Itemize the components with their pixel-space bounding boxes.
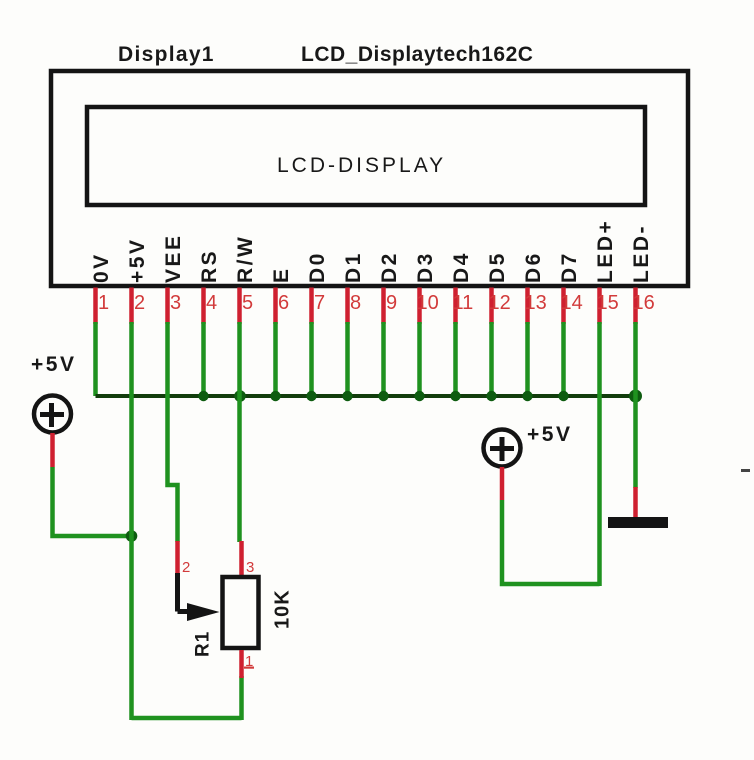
svg-text:13: 13 <box>525 292 547 314</box>
pin 11 (D4) <box>450 251 473 324</box>
junction pin 12 <box>486 391 496 401</box>
wire pin 3 VEE down with jog to R1 wiper <box>168 322 178 542</box>
wire pin 4 down to bus <box>201 322 206 396</box>
svg-text:0V: 0V <box>90 252 113 283</box>
wire pin 9 down to bus <box>381 322 386 396</box>
svg-text:VEE: VEE <box>162 233 185 283</box>
wire +5V left down and right to pin2 net <box>53 467 132 536</box>
junction +5V left with pin2 net <box>126 530 138 542</box>
wire pin 14 down to bus <box>561 322 566 396</box>
wire pin 12 down to bus <box>489 322 494 396</box>
potentiometer R1 body <box>223 577 259 648</box>
pin 7 (D0) <box>306 251 329 324</box>
wire up to R1 pin1 <box>239 676 244 720</box>
pin 16 (LED-) <box>630 224 655 324</box>
pin 5 (R/W) <box>234 235 257 324</box>
wire pin 16 down to ground <box>633 322 638 488</box>
pin 6 (E) <box>270 266 293 324</box>
ground pin stub (red) <box>633 487 638 518</box>
junction pin 5 <box>234 390 246 402</box>
wire pin 13 down to bus <box>525 322 530 396</box>
wire pin 2 down through bus to bottom <box>129 322 134 720</box>
svg-text:2: 2 <box>182 559 190 576</box>
wire pin 5 R/W down to R1 pin3 <box>237 322 242 542</box>
pin 10 (D3) <box>414 251 439 324</box>
pin stub of +5V left (red) <box>50 433 55 467</box>
pin 13 (D6) <box>522 251 547 324</box>
svg-text:12: 12 <box>489 292 511 314</box>
svg-text:14: 14 <box>561 292 583 314</box>
junction pin 8 <box>342 391 352 401</box>
svg-text:10K: 10K <box>272 589 294 629</box>
svg-text:+5V: +5V <box>31 353 76 376</box>
wire 0V bus horizontal <box>96 394 636 398</box>
pin 2 (+5V) <box>126 238 149 324</box>
svg-text:9: 9 <box>386 292 397 314</box>
component Display1 outer body <box>51 71 688 286</box>
ground symbol <box>608 517 668 528</box>
svg-text:15: 15 <box>597 292 619 314</box>
svg-text:D4: D4 <box>450 251 473 283</box>
stray scan mark right edge <box>741 469 750 472</box>
wire pin 10 down to bus <box>417 322 422 396</box>
svg-text:11: 11 <box>453 292 474 314</box>
pin 3 (VEE) <box>162 233 185 324</box>
svg-text:+5V: +5V <box>126 238 149 283</box>
junction pin 9 <box>378 391 388 401</box>
R1 pin 1 stub bottom (red) <box>239 650 244 678</box>
svg-text:RS: RS <box>198 249 221 283</box>
svg-text:D2: D2 <box>378 251 401 283</box>
svg-text:D3: D3 <box>414 251 437 283</box>
wire pin 1 down to bus <box>93 322 98 396</box>
wire pin 8 down to bus <box>345 322 350 396</box>
svg-text:D6: D6 <box>522 251 545 283</box>
wire bottom horizontal to R1 pin1 <box>132 716 242 721</box>
wire pin 11 down to bus <box>453 322 458 396</box>
pin 14 (D7) <box>558 251 583 324</box>
svg-text:5: 5 <box>242 292 253 314</box>
wire pin 15 down to +5V right net <box>597 322 602 586</box>
svg-text:D5: D5 <box>486 251 509 283</box>
R1 wiper pin stub (red) <box>175 541 180 573</box>
wire +5V right down and to pin15 <box>502 500 600 584</box>
svg-text:7: 7 <box>314 292 325 314</box>
pin 4 (RS) <box>198 249 221 324</box>
junction pin 4 <box>198 391 208 401</box>
svg-text:16: 16 <box>633 292 655 314</box>
wire pin 7 down to bus <box>309 322 314 396</box>
wire pin 6 down to bus <box>273 322 278 396</box>
pin stub of +5V right (red) <box>500 467 505 500</box>
svg-text:1: 1 <box>98 292 109 314</box>
pin 15 (LED+) <box>594 219 619 324</box>
junction pin 11 <box>450 391 460 401</box>
svg-text:LCD_Displaytech162C: LCD_Displaytech162C <box>301 43 533 66</box>
svg-text:+5V: +5V <box>527 423 572 446</box>
LCD display window rectangle <box>87 107 645 205</box>
svg-text:D1: D1 <box>342 251 365 283</box>
pin 8 (D1) <box>342 251 365 324</box>
svg-text:R/W: R/W <box>234 235 257 283</box>
svg-text:10: 10 <box>417 292 439 314</box>
svg-text:LCD-DISPLAY: LCD-DISPLAY <box>277 154 446 177</box>
junction pin 13 <box>522 391 532 401</box>
svg-text:D7: D7 <box>558 251 581 283</box>
pin 12 (D5) <box>486 251 511 324</box>
svg-text:E: E <box>270 266 293 283</box>
power +5V symbol left <box>34 396 71 433</box>
junction pin 16 <box>629 390 642 403</box>
R1 pin 3 stub (red) <box>239 541 244 575</box>
junction pin 7 <box>306 391 316 401</box>
svg-text:D0: D0 <box>306 251 329 283</box>
pin 9 (D2) <box>378 251 401 324</box>
svg-text:LED+: LED+ <box>594 219 617 283</box>
junction pin 14 <box>558 391 568 401</box>
junction pin 10 <box>414 391 424 401</box>
svg-text:Display1: Display1 <box>118 43 215 66</box>
junction pin 6 <box>270 391 280 401</box>
svg-text:R1: R1 <box>193 631 214 657</box>
pin 1 (0V) <box>90 252 113 324</box>
power +5V symbol right <box>484 430 521 467</box>
svg-text:6: 6 <box>278 292 289 314</box>
svg-text:LED-: LED- <box>630 224 653 283</box>
svg-text:3: 3 <box>170 292 181 314</box>
svg-text:8: 8 <box>350 292 361 314</box>
svg-text:4: 4 <box>206 292 217 314</box>
potentiometer R1 wiper arrow <box>178 573 220 621</box>
svg-text:3: 3 <box>246 559 254 576</box>
svg-text:2: 2 <box>134 292 145 314</box>
